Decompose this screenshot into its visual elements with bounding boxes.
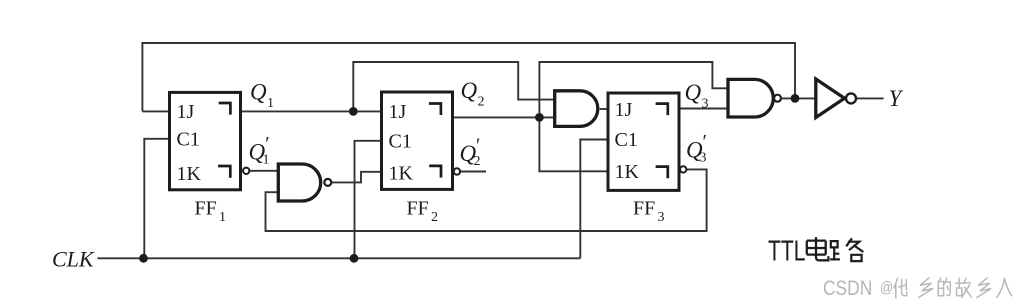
svg-text:FF: FF [633,198,655,220]
svg-text:3: 3 [658,210,665,225]
FF2 output bubble Q2' [454,168,460,174]
G3 output bubble [774,95,781,102]
junction on CLK at FF2 [350,254,359,263]
svg-text:C1: C1 [615,129,638,151]
svg-text:CLK: CLK [52,247,95,272]
svg-text:Q: Q [250,80,267,105]
svg-text:Y: Y [889,86,904,111]
watermark hanzi: ta (he) [894,279,907,299]
svg-text:Q: Q [685,80,702,105]
wire: AND gate output to FF3 1J [600,108,608,110]
svg-text:@: @ [880,279,893,296]
NAND gate G1 (feedback gate below FF1) [278,164,320,201]
svg-text:1K: 1K [389,163,414,185]
svg-text:FF: FF [407,198,429,220]
G4 output bubble [846,93,856,103]
wire: Q3' feedback to NAND G1 bottom input [266,169,707,231]
watermark CSDN [823,277,893,300]
wire: CLK to FF1 C1 [144,139,169,258]
wire: Q3 from FF3 to NAND G3 bottom input [679,108,728,110]
svg-text:2: 2 [431,210,438,225]
wire: FF1 1J input stub [142,110,169,112]
svg-text:CSDN: CSDN [823,277,872,300]
caption hanzi dian (electric) [807,237,829,260]
svg-text:1J: 1J [615,99,633,121]
svg-text:C1: C1 [177,128,200,150]
wire: Q2 branch up to NAND G3 top input [539,62,728,117]
NAND gate G3 (output gate) [728,79,773,117]
svg-text:2: 2 [474,154,481,169]
svg-text:1K: 1K [615,161,640,183]
junction on CLK at FF1 [139,254,148,263]
wire: NAND G3 output to inverter [781,97,816,99]
flip-flop FF1 box [170,92,241,189]
caption hanzi lu (road) [830,238,863,261]
svg-text:C1: C1 [389,130,412,152]
svg-text:1J: 1J [177,101,195,123]
svg-text:FF: FF [195,198,217,220]
wire: NAND G1 output to FF2 1K [332,172,382,183]
flip-flop FF3 box [608,93,679,190]
svg-text:1: 1 [219,210,226,225]
svg-text:1J: 1J [389,101,407,123]
wire: Q1 branch to AND gate top input [353,62,554,111]
inverter G4 [816,79,845,118]
wire: Q2' open stub [461,171,487,173]
svg-text:TTL: TTL [768,236,806,268]
watermark hanzi: xiang (country) [977,278,991,298]
svg-text:3: 3 [702,97,709,112]
svg-text:2: 2 [478,95,485,110]
svg-text:3: 3 [700,151,707,166]
flip-flop FF2 box [382,92,453,189]
wire: CLK rail [98,257,581,259]
watermark hanzi: de [938,278,950,296]
AND gate G2 (before FF3 1J) [555,91,598,127]
wire: CLK to FF2 C1 [355,141,382,258]
watermark hanzi: gu (reason) [956,278,972,297]
watermark hanzi: xiang (country) [919,278,933,298]
wire: inverter output to Y [856,97,883,99]
watermark hanzi: ren (person) [997,278,1012,297]
wire: Q2 branch down to FF3 1K [539,117,608,171]
junction on Q1 at FF2 branch [349,107,358,116]
wire: CLK to FF3 C1 [580,140,608,259]
junction on Q2 at branch [535,113,544,122]
svg-text:1: 1 [267,96,274,111]
wire: Q1' to NAND G1 top input [250,170,278,172]
svg-text:Q: Q [461,78,478,103]
wire: Q2 from FF2 to AND gate bottom input [453,116,555,118]
svg-text:1: 1 [263,153,270,168]
wire: top feedback from output node to FF1 1J [142,43,795,111]
wire: Q1 from FF1 to FF2 1J [241,110,382,112]
FF1 output bubble Q1' [243,168,249,174]
junction at output node [791,94,800,103]
svg-text:1K: 1K [177,163,202,185]
FF3 output bubble Q3' [680,166,686,172]
G1 output bubble [324,179,331,186]
